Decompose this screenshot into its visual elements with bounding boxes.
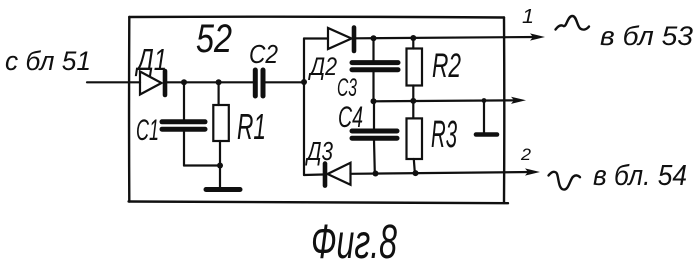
arrowhead middle output	[511, 97, 526, 104]
node dot H	[410, 98, 416, 104]
svg-text:R1: R1	[237, 106, 266, 147]
diode Д1	[135, 42, 167, 95]
resistor R2	[407, 38, 462, 101]
svg-text:R2: R2	[432, 47, 461, 85]
ground on middle output	[476, 98, 497, 134]
node dot A	[181, 79, 187, 85]
node dot F	[410, 35, 416, 41]
svg-text:C1: C1	[136, 114, 159, 147]
node dot C	[217, 163, 223, 169]
svg-text:Д1: Д1	[135, 42, 167, 77]
svg-text:Д2: Д2	[307, 53, 337, 81]
diode Д3	[304, 136, 351, 186]
waveform bump (output 1)	[556, 16, 590, 30]
waveform dip (output 2)	[549, 172, 581, 190]
node dot E	[371, 35, 377, 41]
block 52 outer box	[129, 15, 504, 18]
svg-text:2: 2	[520, 145, 532, 164]
svg-text:в бл 53: в бл 53	[600, 21, 693, 51]
svg-text:с бл 51: с бл 51	[5, 46, 91, 76]
node dot D (wire meets inner block)	[301, 79, 307, 85]
svg-text:Фиг.8: Фиг.8	[311, 216, 397, 267]
svg-text:52: 52	[196, 17, 232, 61]
capacitor C4	[338, 101, 397, 173]
node dot I	[373, 171, 379, 177]
svg-text:1: 1	[522, 6, 534, 28]
inner block left edge wire	[303, 39, 305, 176]
wire Д2 to output 1	[356, 37, 537, 38]
wire C1 bottom to R1 bottom	[184, 164, 220, 166]
svg-text:C2: C2	[249, 39, 278, 69]
resistor R3	[407, 101, 458, 172]
capacitor C1	[136, 82, 205, 165]
diode Д2	[304, 28, 354, 82]
capacitor C3	[337, 38, 398, 102]
node dot B	[216, 79, 222, 85]
middle wire to output	[374, 100, 519, 101]
svg-text:C4: C4	[338, 101, 363, 134]
wire input	[87, 81, 140, 83]
node dot G	[371, 98, 377, 104]
node dot J	[413, 170, 419, 176]
svg-text:R3: R3	[431, 114, 457, 156]
wire Д3 to output 2	[351, 172, 533, 174]
capacitor C2	[249, 39, 304, 96]
resistor R1	[213, 82, 266, 188]
wire Д1 to C2	[167, 81, 254, 83]
svg-text:в бл. 54: в бл. 54	[593, 160, 687, 192]
arrowhead output 2	[525, 168, 540, 175]
svg-text:Д3: Д3	[305, 136, 334, 166]
svg-text:C3: C3	[337, 74, 357, 102]
ground under R1	[206, 187, 240, 192]
arrowhead output 1	[530, 33, 545, 40]
